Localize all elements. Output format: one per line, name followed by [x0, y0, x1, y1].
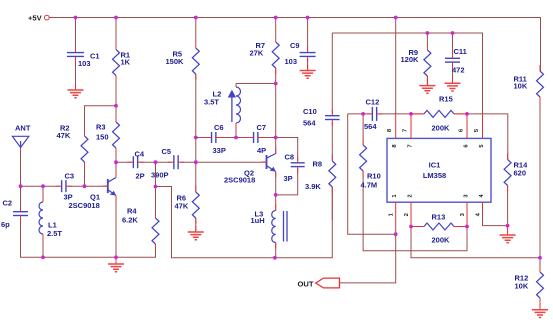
wire R14 bottom / pin4 ground link: [483, 186, 508, 226]
label R7: [250, 41, 266, 58]
svg-text:7: 7: [408, 144, 414, 147]
svg-text:120K: 120K: [401, 55, 420, 64]
svg-text:IC1: IC1: [429, 161, 441, 170]
label Q2: [224, 169, 255, 185]
svg-text:+5V: +5V: [28, 13, 43, 22]
svg-text:103: 103: [285, 57, 298, 66]
antenna ANT: [12, 124, 30, 148]
wire C8 bottom to emitter: [276, 168, 298, 195]
pin 6 numbers: [459, 128, 470, 148]
resistor R5: [192, 42, 199, 80]
svg-text:200K: 200K: [432, 124, 451, 133]
inductor L1: [39, 196, 43, 240]
capacitor C12: [367, 107, 383, 121]
svg-text:2SC9018: 2SC9018: [69, 201, 100, 210]
capacitor C11: [445, 52, 460, 68]
svg-text:33P: 33P: [213, 146, 226, 155]
wire R11-R12 column: [539, 97, 541, 310]
resistor R12: [537, 266, 544, 304]
svg-text:R8: R8: [313, 160, 323, 169]
wire R4 top: [155, 187, 157, 219]
wire C11 branch: [452, 33, 454, 83]
label R4: [122, 207, 138, 225]
capacitor C5: [168, 155, 184, 169]
wire C1 branch: [75, 18, 77, 91]
svg-text:R3: R3: [96, 123, 106, 132]
wire L2 top link: [236, 84, 276, 138]
transistor Q1: [103, 172, 116, 202]
capacitor C3: [56, 180, 72, 192]
label R3: [96, 123, 109, 142]
wire C9 branch: [307, 18, 309, 71]
wire Q1 emitter down: [115, 196, 117, 258]
ground for C1: [68, 84, 84, 98]
svg-text:OUT: OUT: [298, 279, 314, 288]
ground for emitter rail: [108, 257, 124, 271]
pin 8 numbers: [387, 128, 398, 148]
label C12: [364, 98, 379, 132]
label R1: [121, 51, 131, 67]
ground for C11: [445, 77, 461, 91]
label R12: [515, 274, 529, 291]
svg-text:3.5T: 3.5T: [204, 98, 219, 107]
svg-text:472: 472: [452, 66, 465, 75]
wire pin2 to divider: [411, 227, 540, 258]
resistor R7: [272, 36, 279, 74]
svg-text:R4: R4: [127, 207, 137, 216]
wire C5 branch step to emitter rail: [156, 162, 333, 258]
resistor R6: [192, 186, 199, 224]
ground for pin 4: [500, 226, 516, 243]
resistor R14: [504, 154, 511, 192]
ground for R6: [188, 226, 204, 240]
svg-text:R10: R10: [367, 172, 381, 181]
svg-text:C3: C3: [65, 172, 75, 181]
pin 2 numbers: [404, 194, 414, 216]
svg-text:2: 2: [404, 213, 410, 216]
label R15: [432, 95, 453, 133]
wire R9 branch: [426, 33, 428, 86]
label C10: [303, 107, 317, 128]
capacitor C8: [291, 157, 305, 173]
wire R7 branch: [275, 18, 277, 155]
capacitor C2: [13, 206, 28, 222]
svg-text:C8: C8: [285, 153, 295, 162]
wire R1 branch: [115, 18, 117, 106]
svg-text:6.2K: 6.2K: [122, 216, 138, 225]
svg-text:390P: 390P: [151, 171, 169, 180]
wire bias rail2: [332, 33, 482, 114]
pin 1 numbers: [389, 194, 399, 217]
label L1: [47, 221, 62, 239]
pin 4 stub: [482, 202, 484, 213]
label R2: [57, 124, 71, 140]
wire R6 to ground: [195, 162, 197, 232]
svg-text:R15: R15: [439, 95, 453, 104]
label C1: [78, 52, 100, 69]
svg-text:103: 103: [78, 59, 91, 68]
pin 6 stub: [466, 114, 468, 138]
label R8: [305, 160, 322, 192]
capacitor C10: [325, 110, 340, 126]
wire pin3 to R10 return: [363, 171, 467, 251]
label C4: [135, 150, 145, 181]
label R11: [514, 75, 528, 91]
pin 5 stub: [482, 114, 484, 138]
svg-text:10K: 10K: [515, 282, 529, 291]
svg-text:47K: 47K: [57, 131, 71, 140]
svg-text:27K: 27K: [250, 49, 264, 58]
pin 3 numbers: [460, 194, 470, 217]
wire C10-R8 column: [331, 33, 333, 220]
svg-text:C11: C11: [454, 47, 467, 56]
resistor R2: [81, 130, 88, 168]
svg-text:ANT: ANT: [15, 124, 31, 133]
ground for C9: [300, 64, 316, 78]
inductor L2 (adjustable): [228, 87, 241, 129]
resistor R9: [424, 44, 431, 82]
ground for R12: [532, 304, 548, 318]
resistor R13: [411, 223, 467, 230]
capacitor C9: [300, 47, 316, 63]
label C3: [64, 172, 75, 202]
pin 4 numbers: [476, 194, 486, 217]
ground for R9: [419, 79, 435, 93]
svg-text:564: 564: [364, 122, 377, 131]
label R10: [361, 172, 381, 190]
label C8: [284, 153, 295, 184]
label C7: [257, 123, 267, 155]
label Q1: [69, 193, 101, 210]
pin 1 stub: [395, 202, 397, 234]
svg-text:4P: 4P: [257, 146, 266, 155]
resistor R15: [411, 110, 467, 117]
svg-text:7: 7: [403, 129, 409, 132]
label L3: [251, 210, 265, 226]
label R9: [401, 48, 420, 64]
svg-text:C5: C5: [162, 147, 172, 156]
svg-text:1uH: 1uH: [251, 216, 265, 225]
wire +5V top rail: [49, 18, 540, 72]
svg-text:1K: 1K: [121, 58, 131, 67]
capacitor C6: [206, 132, 222, 143]
wire feedback drop to pin1: [348, 114, 396, 234]
capacitor C1: [67, 47, 84, 63]
svg-text:2: 2: [408, 194, 414, 197]
inductor L3 with core: [272, 205, 287, 249]
wire op-amp input row y113.9: [348, 114, 508, 160]
svg-text:2P: 2P: [136, 172, 145, 181]
label IC1: [423, 161, 446, 181]
resistor R11: [537, 65, 544, 103]
capacitor C7: [248, 132, 264, 143]
pin 7 numbers: [403, 129, 414, 148]
pin 8 stub: [395, 114, 397, 138]
svg-text:150K: 150K: [166, 57, 185, 66]
pin 7 stub: [410, 114, 412, 138]
svg-text:3P: 3P: [284, 174, 293, 183]
wire R3 branch: [115, 106, 117, 177]
svg-text:C10: C10: [303, 107, 317, 116]
wire +5V drop to pin 8: [395, 18, 397, 114]
svg-text:200K: 200K: [432, 236, 451, 245]
svg-text:6p: 6p: [1, 220, 10, 229]
pin 2 stub: [410, 202, 412, 226]
svg-text:2.5T: 2.5T: [47, 229, 62, 238]
resistor R1: [113, 44, 120, 82]
label C9: [285, 41, 300, 66]
svg-text:564: 564: [303, 119, 316, 128]
svg-text:620: 620: [514, 169, 527, 178]
resistor R4: [152, 212, 159, 250]
wire C6-C7 row y137: [196, 138, 298, 162]
wire OUT to pin 1: [340, 234, 396, 283]
label L2: [204, 90, 221, 107]
pin 3 stub: [466, 202, 468, 226]
svg-text:C2: C2: [3, 199, 13, 208]
svg-text:2SC9018: 2SC9018: [224, 176, 255, 185]
wire R5 branch: [195, 18, 197, 163]
svg-text:C7: C7: [257, 123, 267, 132]
label C6: [213, 123, 226, 155]
svg-text:150: 150: [96, 133, 109, 142]
svg-text:3.9K: 3.9K: [305, 182, 321, 191]
op-amp IC1 box: [387, 138, 491, 202]
svg-text:47K: 47K: [175, 202, 189, 211]
label R13: [432, 213, 451, 245]
wire antenna down to C2: [20, 148, 22, 210]
power port +5V: [28, 13, 49, 22]
wire collector row y162: [116, 161, 267, 163]
wire Q2 emitter through L3: [275, 172, 277, 258]
wire C2 bottom + ground rail: [21, 218, 156, 258]
label C5: [151, 147, 171, 180]
resistor R8: [329, 155, 336, 193]
label C11: [452, 47, 467, 75]
wire Q1 base net: [21, 185, 108, 187]
svg-text:C12: C12: [366, 98, 380, 107]
label R14: [514, 161, 529, 178]
wire R1-R2 link: [85, 106, 117, 186]
svg-text:R13: R13: [432, 213, 446, 222]
label R6: [175, 194, 189, 211]
svg-text:C4: C4: [135, 150, 145, 159]
output port OUT: [298, 278, 340, 288]
svg-text:LM358: LM358: [423, 171, 446, 180]
svg-text:C6: C6: [214, 123, 224, 132]
svg-text:10K: 10K: [514, 82, 528, 91]
svg-text:C1: C1: [90, 52, 100, 61]
svg-text:4.7M: 4.7M: [361, 181, 378, 190]
transistor Q2: [262, 148, 276, 178]
capacitor C4: [128, 156, 144, 168]
label R5: [166, 50, 185, 66]
label C2: [1, 199, 12, 230]
resistor R10: [360, 139, 367, 177]
wire L1 branch: [42, 186, 44, 257]
wire R10 top: [362, 114, 364, 145]
resistor R3: [113, 116, 120, 154]
pin 5 numbers: [474, 128, 485, 148]
svg-text:C9: C9: [290, 41, 300, 50]
